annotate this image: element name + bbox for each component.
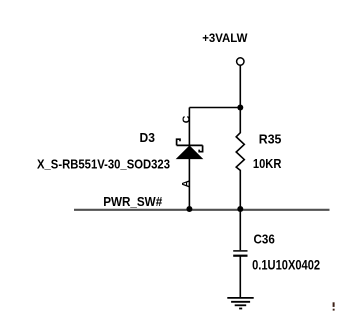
diode D3 (schottky) [177,139,203,158]
svg-text:C36: C36 [254,232,275,247]
power terminal circle [237,58,244,65]
watermark exclamation mark [333,302,335,310]
wire horizontal from junction to diode branch [189,107,240,109]
svg-text:10KR: 10KR [253,156,282,171]
capacitor C36 plates [233,250,247,252]
junction dot diode/net [186,206,192,212]
svg-text:0.1U10X0402: 0.1U10X0402 [252,258,320,273]
svg-text:X_S-RB551V-30_SOD323: X_S-RB551V-30_SOD323 [37,157,170,171]
wire diode branch vertical [188,108,190,210]
ground symbol [227,298,253,309]
wire from net down to capacitor [239,209,241,250]
resistor R35 zigzag [236,108,244,209]
junction dot resistor/cap/net [237,206,243,212]
svg-text:D3: D3 [140,130,155,145]
svg-text:R35: R35 [259,131,282,146]
svg-text:PWR_SW#: PWR_SW# [103,194,162,209]
net wire PWR_SW# [74,209,330,211]
svg-text:C: C [180,115,192,123]
wire from terminal down to junction [239,65,241,108]
junction dot top [237,105,243,111]
wire from capacitor to ground [239,257,241,298]
svg-text:+3VALW: +3VALW [202,31,248,45]
svg-text:A: A [180,180,192,188]
